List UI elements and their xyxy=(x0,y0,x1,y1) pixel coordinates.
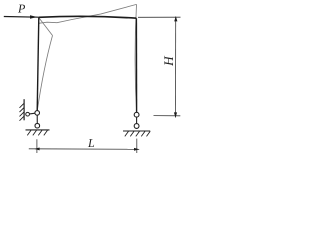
right ground line xyxy=(123,130,150,132)
left ground hatching xyxy=(27,130,47,135)
dimension L right arrow xyxy=(134,148,139,151)
dimension H top leader xyxy=(138,16,181,18)
left support: horizontal link wire xyxy=(28,113,38,114)
left wall hatching xyxy=(20,103,25,121)
left support wall line xyxy=(23,99,25,120)
dimension L left leader xyxy=(36,139,38,153)
left support hinge circle xyxy=(35,111,40,116)
dimension L left arrow xyxy=(34,148,39,151)
frame left column xyxy=(37,17,39,110)
right support hinge circle xyxy=(134,112,139,117)
dimension L line xyxy=(29,148,139,151)
svg-text:L: L xyxy=(87,136,95,150)
frame right column xyxy=(135,18,137,112)
dimension H bottom arrow xyxy=(174,112,177,117)
right ground hatching xyxy=(125,131,150,136)
load P arrow line xyxy=(4,16,39,19)
left ground line xyxy=(26,129,50,131)
left support wall-end pin circle xyxy=(26,112,30,116)
right support hinge circle wire xyxy=(136,115,138,126)
svg-text:H: H xyxy=(161,55,176,67)
deformed left column lower segment xyxy=(37,36,52,111)
load P arrowhead xyxy=(30,15,37,19)
left support ground circle xyxy=(35,123,40,128)
deformed beam line xyxy=(39,4,137,23)
left support: vertical link wire xyxy=(36,113,38,126)
deformed right column xyxy=(135,4,137,112)
dimension H bottom leader xyxy=(154,115,181,117)
dimension H line xyxy=(175,17,177,118)
right support ground circle xyxy=(134,124,139,129)
deformed left column upper segment xyxy=(39,18,52,35)
frame beam xyxy=(39,16,137,18)
svg-text:P: P xyxy=(17,1,26,15)
dimension H top arrow xyxy=(174,16,177,21)
dimension L right leader xyxy=(136,139,138,153)
